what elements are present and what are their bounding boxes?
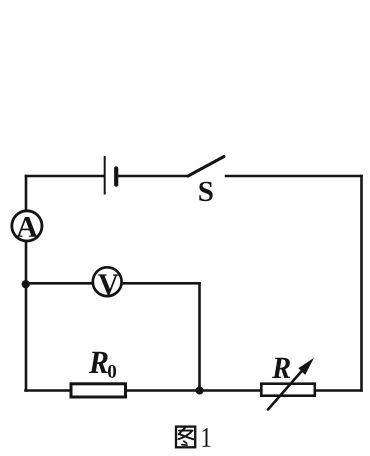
variable resistor R label <box>272 358 290 378</box>
ammeter label A <box>17 217 38 237</box>
voltmeter V circle <box>93 267 122 296</box>
variable resistor R body <box>261 384 315 396</box>
battery: short thick plate <box>114 168 118 184</box>
switch label S <box>199 182 212 201</box>
node junction bottom (dot) <box>196 387 204 395</box>
battery: long thin plate <box>104 156 106 195</box>
wire right side vertical <box>360 176 363 391</box>
wire top-left segment <box>26 175 104 178</box>
node junction left (dot) <box>22 280 30 288</box>
wire voltmeter branch vertical <box>198 283 201 390</box>
resistor R0 label R <box>89 352 108 373</box>
caption text 1 <box>202 428 210 447</box>
voltmeter label V <box>98 274 118 294</box>
wire bottom horizontal <box>26 389 362 392</box>
wire battery to switch <box>117 175 188 178</box>
caption glyph 图 (drawn) <box>176 427 195 448</box>
ammeter A circle <box>12 211 42 241</box>
wire switch to top-right corner <box>226 175 362 178</box>
variable resistor R arrow <box>268 369 304 410</box>
switch S lever <box>188 157 224 177</box>
resistor R0 body <box>71 384 126 397</box>
resistor R0 label subscript 0 <box>108 365 116 378</box>
wire left side vertical <box>25 176 28 391</box>
wire voltmeter branch horizontal <box>26 282 200 285</box>
